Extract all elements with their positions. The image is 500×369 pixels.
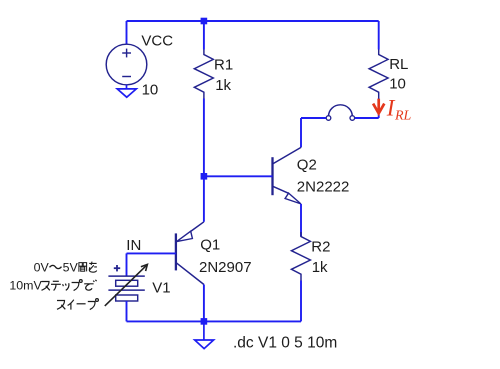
- svg-text:R1: R1: [214, 56, 233, 73]
- resistor R1: [194, 50, 213, 99]
- svg-text:.dc V1 0 5 10m: .dc V1 0 5 10m: [233, 334, 337, 351]
- junction node R1/Q2 base/Q1 emitter: [201, 173, 208, 180]
- wire Q1 emitter riser: [203, 176, 205, 222]
- svg-text:1k: 1k: [312, 259, 328, 276]
- svg-text:10mV: 10mV: [9, 278, 42, 292]
- wire RL bottom lead: [378, 99, 380, 119]
- wire Q2 collector riser: [300, 118, 302, 147]
- svg-text:V1: V1: [152, 280, 170, 297]
- svg-text:Q2: Q2: [297, 156, 317, 173]
- wire IN down to V1: [126, 253, 128, 276]
- junction node top of R1: [201, 18, 208, 25]
- katakana su: [42, 282, 50, 291]
- svg-text:1k: 1k: [215, 77, 231, 94]
- katakana te: [51, 281, 61, 290]
- svg-text:RL: RL: [394, 109, 412, 124]
- kanji ma (gate): [79, 263, 87, 272]
- current arrow IRL: [373, 99, 384, 114]
- svg-text:Q1: Q1: [200, 237, 220, 254]
- wire Q2 base: [204, 175, 273, 177]
- svg-text:VCC: VCC: [141, 33, 173, 50]
- voltage source VCC: [106, 44, 147, 85]
- hiragana wo: [89, 262, 97, 273]
- wire Q1 base / node IN: [127, 252, 176, 254]
- svg-text:2N2222: 2N2222: [297, 179, 350, 196]
- resistor R2: [291, 232, 310, 281]
- annotation japanese line 1: 0V~5V wo: [34, 260, 97, 274]
- ground under VCC: [117, 85, 136, 97]
- wire R2 bottom: [300, 281, 302, 322]
- svg-text:5V: 5V: [63, 260, 79, 274]
- wire top rail: [127, 20, 379, 22]
- annotation japanese line 3: sweep: [57, 299, 98, 310]
- wire bottom rail: [127, 320, 302, 322]
- wire loop left: [301, 117, 326, 119]
- wire R1 bottom to node: [203, 99, 205, 177]
- annotation japanese line 2: 10mV step de: [9, 278, 96, 292]
- wire V1 bottom: [126, 301, 128, 321]
- transistor Q2 (2N2222 NPN): [273, 147, 302, 204]
- katakana small tsu: [63, 283, 69, 290]
- wave dash: [50, 265, 62, 268]
- wire R1 top: [203, 21, 205, 50]
- voltage source V1 (battery): [108, 265, 144, 301]
- svg-text:10: 10: [142, 81, 159, 98]
- svg-text:RL: RL: [389, 56, 408, 73]
- current sense loop: [326, 105, 354, 120]
- resistor RL: [369, 50, 388, 99]
- katakana pu: [72, 280, 83, 291]
- svg-text:R2: R2: [311, 238, 330, 255]
- katakana i: [68, 300, 74, 310]
- transistor Q1 (2N2907 PNP): [176, 222, 204, 285]
- katakana su: [57, 301, 65, 310]
- variable arrow over V1: [105, 264, 148, 306]
- hiragana de: [84, 280, 96, 290]
- wire RL top lead: [378, 21, 380, 50]
- wire VCC top lead: [126, 21, 128, 44]
- wire Q2 emitter to R2: [300, 204, 302, 237]
- wire loop right: [355, 117, 379, 119]
- svg-text:2N2907: 2N2907: [199, 259, 252, 276]
- svg-text:10: 10: [389, 76, 406, 93]
- wire Q1 collector drop: [203, 285, 205, 322]
- katakana long bar: [77, 303, 86, 305]
- junction node ground: [201, 318, 208, 325]
- katakana pu: [88, 299, 99, 310]
- svg-text:0V: 0V: [34, 260, 50, 274]
- ground symbol: [195, 321, 214, 348]
- svg-text:IN: IN: [126, 237, 141, 254]
